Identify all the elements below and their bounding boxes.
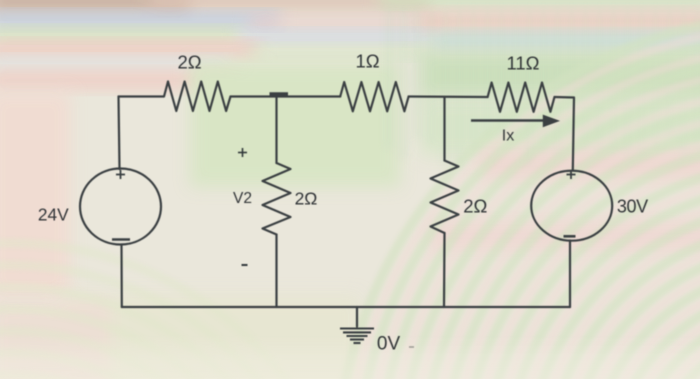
- voltage source V3 30V circle: [531, 171, 612, 241]
- ground bars: [340, 329, 374, 344]
- wire right-middle branch upper: [443, 97, 445, 161]
- svg-text:24V: 24V: [38, 205, 69, 225]
- wire left branch upper: [119, 97, 120, 170]
- resistor R2 1ohm top-middle zigzag: [340, 82, 408, 111]
- plus sign inside 24V source: [116, 170, 125, 179]
- svg-text:2Ω: 2Ω: [177, 52, 201, 73]
- wire middle branch V2 upper: [275, 97, 277, 164]
- resistor R5 2ohm right-middle vertical zigzag: [431, 161, 459, 234]
- wire bottom bus: [122, 306, 570, 308]
- faint dash after 0V: [409, 346, 414, 348]
- resistor R3 11ohm top-right zigzag: [488, 83, 555, 112]
- bottom-right moire arcs: [335, 15, 700, 379]
- wire right branch lower: [569, 241, 571, 308]
- svg-text:1Ω: 1Ω: [355, 51, 379, 72]
- resistor R4 2ohm middle vertical zigzag: [263, 163, 291, 235]
- circuit drawing: [38, 51, 648, 355]
- minus sign inside 30V source: [564, 235, 576, 238]
- bottom-left faint arcs: [0, 243, 357, 379]
- vertical ripple texture top-right: [386, 8, 700, 168]
- voltage source V1 24V circle: [80, 169, 161, 245]
- ground stem: [356, 307, 358, 327]
- svg-text:V2: V2: [233, 190, 252, 207]
- plus sign inside 30V source: [567, 170, 576, 179]
- wire right-middle branch lower: [443, 233, 446, 307]
- plus sign label for V2: [238, 148, 247, 157]
- svg-text:2Ω: 2Ω: [295, 189, 318, 209]
- svg-text:30V: 30V: [617, 197, 648, 217]
- svg-text:0V: 0V: [377, 334, 401, 355]
- wire top bus right segment: [409, 95, 488, 98]
- minus sign inside 24V source: [112, 238, 130, 241]
- resistor R1 2ohm top-left zigzag: [164, 82, 231, 112]
- wire top-right corner: [555, 97, 575, 170]
- svg-text:Ix: Ix: [502, 128, 514, 145]
- svg-text:11Ω: 11Ω: [506, 53, 539, 74]
- svg-text:2Ω: 2Ω: [463, 196, 487, 217]
- wire top bus left segment: [119, 95, 164, 97]
- minus sign label for V2: [242, 264, 248, 266]
- wire top bus middle segment: [231, 95, 341, 97]
- node junction tick at top of V2 branch: [270, 92, 289, 96]
- wire middle branch V2 lower: [275, 235, 277, 308]
- wire left branch lower: [120, 245, 123, 308]
- current arrow Ix: [471, 116, 557, 125]
